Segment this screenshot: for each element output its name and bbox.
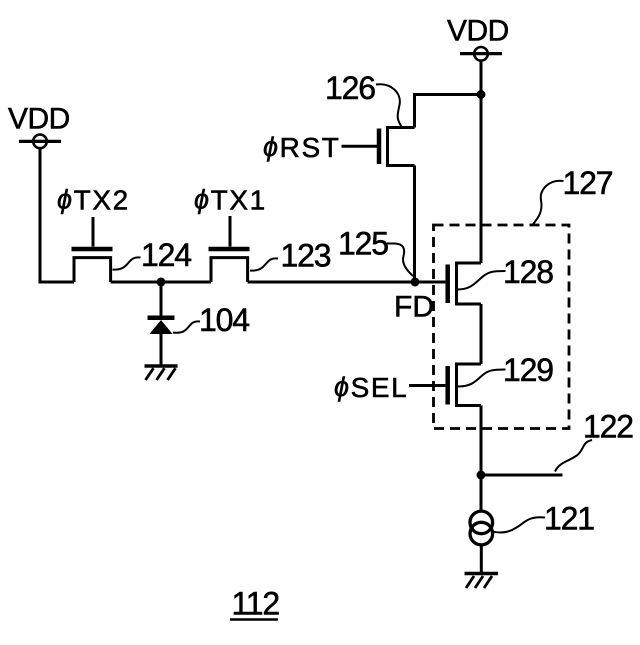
transistor Q128 channel bump xyxy=(457,263,482,304)
transistor Q124 channel bump xyxy=(74,258,111,282)
wire Q126 source to FD xyxy=(413,166,416,283)
transistor Q123 gate lead xyxy=(229,216,232,247)
svg-text:123: 123 xyxy=(281,238,331,274)
node VDD branch to Q126 xyxy=(477,90,486,99)
VDD terminal left xyxy=(19,140,61,143)
transistor Q128 gate bar xyxy=(445,265,450,304)
leader 129 xyxy=(458,370,506,387)
VDD terminal top right xyxy=(460,52,502,55)
svg-text:126: 126 xyxy=(325,70,375,106)
wire VDD branch to Q126 drain xyxy=(415,95,482,128)
transistor Q129 gate bar xyxy=(445,366,450,405)
leader 121 xyxy=(494,517,545,532)
svg-text:121: 121 xyxy=(544,501,594,537)
svg-text:127: 127 xyxy=(563,165,613,201)
wire Q129 source down to output node xyxy=(480,406,483,511)
transistor Q124 gate bar xyxy=(72,247,113,252)
wire rail between Q124 and Q123 xyxy=(111,281,211,284)
current source I121 circles xyxy=(470,511,493,534)
leader 128 xyxy=(457,271,506,290)
svg-text:125: 125 xyxy=(338,226,388,262)
svg-text:ϕRST: ϕRST xyxy=(263,132,340,163)
wire output line 122 xyxy=(481,474,563,477)
ground under I121 xyxy=(465,572,499,576)
transistor Q129 gate lead xyxy=(409,384,445,387)
transistor Q126 gate lead xyxy=(342,145,378,148)
transistor Q126 gate bar xyxy=(377,129,382,165)
photodiode D104 lead xyxy=(160,282,163,316)
svg-text:128: 128 xyxy=(503,254,553,290)
photodiode D104 triangle xyxy=(150,320,173,334)
figure label underline xyxy=(230,618,278,621)
photodiode D104 cathode bar xyxy=(148,316,175,321)
transistor Q123 channel bump xyxy=(211,258,248,282)
svg-text:FD: FD xyxy=(394,291,434,324)
svg-text:VDD: VDD xyxy=(8,103,70,136)
leader 124 xyxy=(113,257,141,269)
transistor Q126 channel bump xyxy=(388,128,415,166)
leader 104 xyxy=(173,321,200,332)
svg-text:112: 112 xyxy=(232,586,280,622)
svg-text:129: 129 xyxy=(503,352,553,388)
svg-text:ϕTX1: ϕTX1 xyxy=(194,185,267,216)
leader 122 xyxy=(555,440,592,472)
leader 123 xyxy=(250,258,278,270)
wire current source to ground xyxy=(480,545,483,574)
svg-text:ϕTX2: ϕTX2 xyxy=(57,185,130,216)
svg-text:104: 104 xyxy=(199,302,249,338)
leader 126 xyxy=(376,84,402,126)
svg-text:ϕSEL: ϕSEL xyxy=(334,372,408,403)
svg-text:VDD: VDD xyxy=(447,15,509,48)
svg-text:122: 122 xyxy=(583,409,633,445)
dashed box 127 xyxy=(434,225,570,429)
node photodiode junction xyxy=(157,278,166,287)
transistor Q123 gate bar xyxy=(209,247,250,252)
wire rail Q123 to FD xyxy=(248,281,415,284)
svg-text:124: 124 xyxy=(141,237,191,273)
transistor Q124 gate lead xyxy=(92,217,95,247)
wire between Q128 and Q129 xyxy=(480,304,483,364)
transistor Q128 gate lead xyxy=(415,281,445,284)
node FD xyxy=(411,278,420,287)
ground under D104 xyxy=(145,364,178,368)
leader 127 xyxy=(533,181,564,225)
wire VDD-left down to bottom rail xyxy=(40,148,74,282)
transistor Q129 channel bump xyxy=(457,364,482,406)
photodiode D104 lead to ground xyxy=(160,334,163,366)
node output junction xyxy=(477,471,486,480)
wire VDD-right vertical main xyxy=(480,61,483,263)
leader 125 xyxy=(387,244,413,277)
